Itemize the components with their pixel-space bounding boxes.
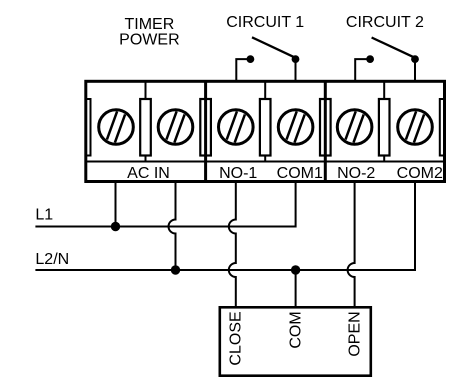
svg-text:L2/N: L2/N bbox=[35, 251, 69, 268]
fuse F1 (half, left edge) bbox=[86, 99, 91, 156]
svg-text:COM2: COM2 bbox=[397, 165, 443, 182]
terminal strip outer box bbox=[86, 81, 445, 181]
svg-text:CIRCUIT 1: CIRCUIT 1 bbox=[226, 14, 304, 31]
switch S1 right contact dot bbox=[292, 55, 300, 63]
svg-text:L1: L1 bbox=[35, 207, 53, 224]
wire L2/N to COM bbox=[295, 270, 297, 307]
junction dot L2N/screw2 bbox=[171, 265, 180, 274]
svg-text:NO-1: NO-1 bbox=[219, 165, 257, 182]
svg-text:AC IN: AC IN bbox=[127, 165, 170, 182]
fuse F2 bbox=[140, 99, 151, 156]
junction dot L2N/COM bbox=[291, 265, 300, 274]
block divider 1 bbox=[204, 81, 207, 181]
switch S2 wire left elbow bbox=[355, 59, 370, 81]
fuse F4 top stub bbox=[264, 81, 266, 99]
wire screw1 to L1 bbox=[115, 182, 117, 227]
screw terminal 2 bbox=[158, 110, 193, 145]
svg-text:CIRCUIT 2: CIRCUIT 2 bbox=[346, 14, 424, 31]
fuse F4 bbox=[260, 99, 271, 156]
wire NO-1 to CLOSE with hops over L1 and L2/N bbox=[229, 182, 236, 308]
switch S1 left contact dot bbox=[247, 55, 255, 63]
switch S2 wire right bbox=[414, 59, 416, 81]
fuse F5 (on divider 2) bbox=[320, 99, 331, 156]
svg-text:CLOSE: CLOSE bbox=[228, 311, 245, 365]
switch S1 wire right bbox=[295, 59, 297, 81]
switch S1 wire left elbow bbox=[236, 59, 250, 81]
wire screw2 to L2/N with hop over L1 bbox=[169, 182, 176, 270]
switch S2 right contact dot bbox=[411, 55, 419, 63]
fuse F6 bbox=[379, 99, 390, 156]
motor box bbox=[220, 307, 371, 375]
fuse F3 (on divider 1) bbox=[200, 99, 211, 156]
label band separator line bbox=[86, 161, 445, 163]
screw terminal 3 bbox=[219, 110, 254, 145]
fuse F6 bottom stub bbox=[383, 156, 385, 162]
fuse F6 top stub bbox=[383, 81, 385, 99]
L1 wire bbox=[35, 182, 295, 227]
switch S2 left contact dot bbox=[366, 55, 374, 63]
switch S2 blade bbox=[372, 38, 415, 58]
svg-text:COM1: COM1 bbox=[277, 165, 323, 182]
screw terminal 5 bbox=[337, 110, 372, 145]
svg-text:COM: COM bbox=[287, 311, 304, 348]
screw terminal 4 bbox=[278, 110, 313, 145]
screw terminal 1 bbox=[99, 110, 134, 145]
junction dot L1/screw1 bbox=[111, 222, 120, 231]
fuse F7 (half, right edge) bbox=[440, 99, 445, 156]
svg-text:OPEN: OPEN bbox=[347, 311, 364, 356]
fuse F2 bottom stub bbox=[145, 156, 147, 162]
svg-text:NO-2: NO-2 bbox=[337, 165, 375, 182]
screw terminal 6 bbox=[398, 110, 433, 145]
L2/N wire bbox=[35, 182, 415, 271]
svg-text:TIMER: TIMER bbox=[125, 16, 175, 33]
block divider 2 bbox=[324, 81, 327, 181]
fuse F2 top stub bbox=[145, 81, 147, 99]
fuse F4 bottom stub bbox=[264, 156, 266, 162]
switch S1 blade bbox=[252, 37, 295, 57]
svg-text:POWER: POWER bbox=[119, 32, 179, 49]
wire NO-2 to OPEN with hop over L2/N bbox=[348, 182, 355, 308]
